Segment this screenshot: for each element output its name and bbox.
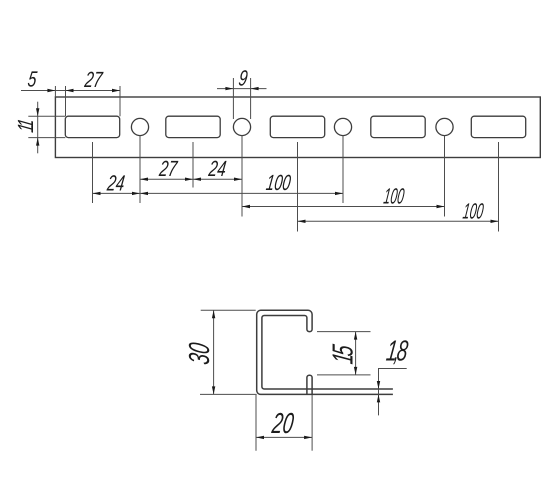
lower extension line slot2 center: [192, 142, 194, 188]
dim 11 dimension line: [37, 102, 39, 154]
lower extension line slot1 center: [92, 142, 94, 203]
dim 11 extension lines: [28, 115, 65, 117]
arrows level A: at 242: [234, 178, 242, 181]
svg-text:30: 30: [184, 341, 216, 367]
arrow dim5 right-pointing at strip edge: [47, 89, 55, 92]
strip outline (top view): [55, 97, 540, 158]
svg-text:100: 100: [265, 170, 293, 195]
dim 9 extension lines: [232, 78, 234, 119]
arrow dim9 right (outside, pointing left): [251, 87, 259, 90]
dim 20 dimension line: [256, 436, 312, 438]
hole 3: [334, 118, 351, 135]
section bottom lip: [307, 375, 312, 394]
lower extension line slot5 center: [498, 142, 500, 232]
arrow dim27 right end: [112, 89, 120, 92]
arrows level B: at 92.5: [93, 192, 101, 195]
arrow dim11 bottom (outside, pointing up): [36, 138, 39, 146]
svg-text:27: 27: [157, 158, 179, 182]
dim 9 dimension line: [217, 88, 267, 90]
hole 2: [233, 118, 250, 135]
svg-text:24: 24: [105, 172, 126, 196]
dim line level A (27,24): [140, 178, 242, 180]
slot 1: [65, 116, 119, 137]
svg-text:5: 5: [26, 68, 38, 92]
slot 5: [471, 116, 525, 137]
arrows level B: double at 140: [132, 192, 140, 195]
lower extension line hole2 center: [241, 136, 243, 217]
svg-text:27: 27: [82, 68, 104, 92]
svg-text:1,8: 1,8: [384, 336, 410, 368]
dim 5/27 extension lines: [54, 86, 56, 97]
arrow dim9 left (outside, pointing right): [225, 87, 233, 90]
hole 1: [131, 118, 148, 135]
slot 3: [270, 116, 324, 137]
dim line level C (100): [242, 206, 445, 208]
lower extension line hole3 center: [342, 136, 344, 203]
dim 5/27 dimension line: [21, 90, 120, 92]
section profile outline: [257, 310, 393, 394]
dim 15 dimension line: [355, 332, 357, 375]
svg-text:15: 15: [328, 343, 360, 366]
arrows dim 30: [212, 310, 215, 318]
arrows dim 20: [256, 436, 264, 439]
lower extension line hole1 center: [139, 136, 141, 203]
arrows dim 15: [354, 332, 357, 340]
arrow dim11 top (outside, pointing down): [36, 108, 39, 116]
dim 15 extension lines: [317, 331, 371, 333]
svg-text:100: 100: [382, 184, 406, 209]
slot 2: [166, 116, 220, 137]
dim line level B (24,100): [93, 192, 344, 194]
arrow dim27 left end: [66, 89, 74, 92]
arrows dim 1,8 (outside): [377, 381, 380, 389]
svg-text:9: 9: [237, 67, 249, 91]
arrows level A: at 140: [140, 178, 148, 181]
arrows level C: [242, 205, 250, 208]
svg-text:24: 24: [206, 157, 227, 181]
slot 4: [371, 116, 425, 137]
svg-text:11: 11: [14, 118, 38, 134]
lower extension line hole4 center: [444, 136, 446, 217]
svg-text:20: 20: [269, 408, 295, 440]
hole 4: [436, 118, 453, 135]
arrows level A: double at 193: [185, 178, 193, 181]
dim 30 extension lines: [201, 309, 256, 311]
dim 1,8 leader shelf: [379, 369, 407, 416]
dim 30 dimension line: [213, 310, 215, 394]
dim line level D (100): [298, 220, 499, 222]
dim 20 extension lines: [255, 395, 257, 451]
lower extension line slot3 center: [297, 142, 299, 232]
svg-text:100: 100: [461, 199, 485, 224]
arrows level B: at 343: [335, 192, 343, 195]
arrows level D: [298, 220, 306, 223]
